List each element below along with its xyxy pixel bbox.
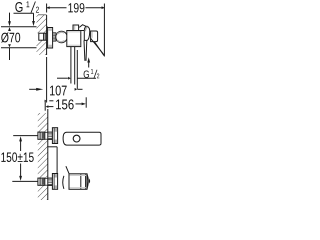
G1/2 label shelf line — [14, 12, 34, 14]
dim 156 upper terminal (at wall-face line) — [45, 100, 47, 102]
label G 1/2 (wall connection) — [15, 1, 39, 12]
text Ø70 — [1, 32, 20, 42]
outlet cap arc (left) — [63, 176, 64, 189]
cartridge dome — [84, 26, 89, 40]
lever loop hole — [73, 135, 80, 142]
lower union nut (striped) — [48, 178, 53, 185]
dim 156 lower-left terminal bar — [44, 101, 46, 111]
body bar between unions — [48, 146, 57, 148]
dim 150±15 bottom extension — [12, 180, 38, 182]
wall section bottom drawing — [38, 113, 48, 132]
G1/2 leader arrow (right, at x=33.5) — [33, 13, 35, 21]
leader arrow up to outlet — [88, 62, 90, 68]
text 156 — [56, 99, 74, 109]
dim 199 line right segment — [86, 7, 105, 9]
union pipe through wall — [39, 33, 47, 40]
top escutcheon — [52, 128, 57, 144]
150±15 dimension line + arrows — [19, 136, 22, 141]
escutcheon (side view) — [48, 28, 53, 49]
ball joint — [56, 31, 68, 43]
wall face line (bottom drawing) — [47, 109, 49, 132]
dim 150±15 top extension — [13, 135, 39, 137]
dim 199 left arrowhead — [47, 6, 50, 9]
dim Ø70 top extension line — [1, 26, 48, 28]
top union nut (striped) — [48, 132, 53, 139]
top knob (flow control) — [73, 25, 79, 31]
text 199 — [68, 3, 84, 12]
199 right extension bar — [103, 4, 105, 57]
outlet cylinder — [69, 174, 87, 190]
G1/2 shelf to label — [77, 77, 96, 79]
wall-face extension line below wall (for 107/156) — [46, 57, 48, 103]
outlet cone below dome — [83, 41, 86, 61]
outlet end cap arc — [87, 174, 88, 190]
union nut sections — [53, 33, 56, 36]
lever top edge — [79, 25, 88, 28]
dim 107 — [29, 88, 36, 90]
mixer body — [67, 31, 81, 47]
dim 199 right arrowhead — [102, 6, 105, 9]
199 left extension bar (wall face) — [46, 4, 48, 13]
dim G1/2 (nipple) line + arrow — [57, 77, 68, 79]
top union stub behind wall — [38, 132, 45, 139]
dim Ø70 upper out-arrow at x=9.5 — [9, 13, 11, 22]
dim 156 right terminal — [76, 103, 82, 105]
lever arm (with loop hole) — [63, 132, 101, 145]
wall section (hatched) — [37, 15, 47, 33]
outlet connector diagonal — [66, 166, 69, 173]
lower escutcheon — [52, 174, 57, 190]
wall face line — [46, 15, 48, 33]
hose nipple under body — [70, 47, 72, 84]
lever handle bars — [91, 38, 104, 54]
label G 1/2 (outlet) — [84, 69, 100, 78]
dim 199 line left segment — [47, 7, 67, 9]
dim Ø70 bottom extension line — [1, 47, 48, 49]
lever paddle — [91, 31, 98, 42]
Ø70 inner arrowheads — [8, 27, 11, 31]
lower union stub behind wall — [38, 178, 45, 185]
Ø70 lower tail line — [9, 48, 11, 60]
hose nipple nub — [89, 178, 90, 183]
